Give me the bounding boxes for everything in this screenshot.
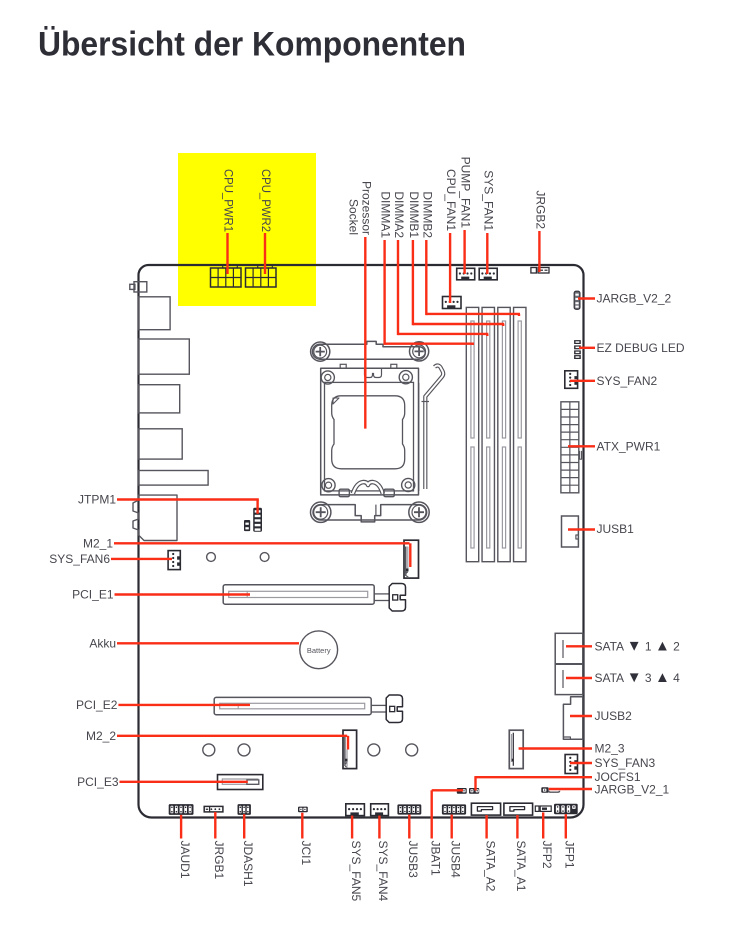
svg-text:M2_3: M2_3 [595, 742, 625, 756]
svg-text:Sockel: Sockel [347, 199, 361, 235]
svg-text:JFP1: JFP1 [563, 841, 577, 869]
svg-text:EZ DEBUG LED: EZ DEBUG LED [597, 341, 685, 355]
svg-text:JBAT1: JBAT1 [428, 841, 442, 876]
svg-text:JFP2: JFP2 [540, 841, 554, 869]
svg-text:SYS_FAN5: SYS_FAN5 [349, 841, 363, 902]
svg-text:SATA_A2: SATA_A2 [483, 841, 497, 892]
svg-text:Akku: Akku [89, 636, 116, 650]
svg-text:SYS_FAN4: SYS_FAN4 [376, 841, 390, 902]
svg-text:SATA ▼ 3 ▲ 4: SATA ▼ 3 ▲ 4 [595, 669, 681, 686]
svg-text:DIMMB2: DIMMB2 [420, 191, 434, 238]
svg-text:Prozessor: Prozessor [360, 181, 374, 235]
svg-text:JAUD1: JAUD1 [178, 841, 192, 879]
svg-text:CPU_PWR1: CPU_PWR1 [222, 169, 236, 232]
svg-text:CPU_FAN1: CPU_FAN1 [444, 169, 458, 231]
svg-text:PUMP_FAN1: PUMP_FAN1 [459, 157, 473, 229]
svg-text:JCI1: JCI1 [299, 841, 313, 866]
svg-text:JDASH1: JDASH1 [241, 841, 255, 887]
svg-text:JTPM1: JTPM1 [78, 493, 116, 507]
svg-text:DIMMA2: DIMMA2 [392, 191, 406, 238]
svg-text:SYS_FAN3: SYS_FAN3 [595, 756, 656, 770]
svg-text:M2_2: M2_2 [86, 729, 116, 743]
svg-text:JUSB4: JUSB4 [448, 841, 462, 879]
svg-text:DIMMA1: DIMMA1 [379, 191, 393, 238]
svg-text:JUSB2: JUSB2 [595, 709, 633, 723]
svg-text:PCI_E3: PCI_E3 [77, 775, 119, 789]
svg-text:ATX_PWR1: ATX_PWR1 [597, 439, 661, 453]
svg-text:JUSB1: JUSB1 [597, 522, 635, 536]
svg-text:JARGB_V2_2: JARGB_V2_2 [597, 292, 672, 306]
svg-text:PCI_E1: PCI_E1 [72, 588, 114, 602]
svg-text:Übersicht der Komponenten: Übersicht der Komponenten [38, 26, 466, 64]
svg-text:JRGB1: JRGB1 [212, 841, 226, 880]
svg-text:SATA ▼ 1 ▲ 2: SATA ▼ 1 ▲ 2 [595, 637, 681, 654]
svg-text:M2_1: M2_1 [83, 536, 113, 550]
svg-text:DIMMB1: DIMMB1 [407, 191, 421, 238]
svg-text:JRGB2: JRGB2 [533, 190, 547, 229]
svg-text:CPU_PWR2: CPU_PWR2 [259, 169, 273, 232]
svg-text:JARGB_V2_1: JARGB_V2_1 [595, 782, 670, 796]
svg-text:SYS_FAN2: SYS_FAN2 [597, 374, 658, 388]
svg-text:JUSB3: JUSB3 [406, 841, 420, 879]
svg-text:SATA_A1: SATA_A1 [514, 841, 528, 892]
svg-text:Battery: Battery [307, 646, 331, 655]
svg-text:SYS_FAN6: SYS_FAN6 [49, 552, 110, 566]
svg-text:PCI_E2: PCI_E2 [76, 698, 118, 712]
svg-text:SYS_FAN1: SYS_FAN1 [481, 170, 495, 231]
